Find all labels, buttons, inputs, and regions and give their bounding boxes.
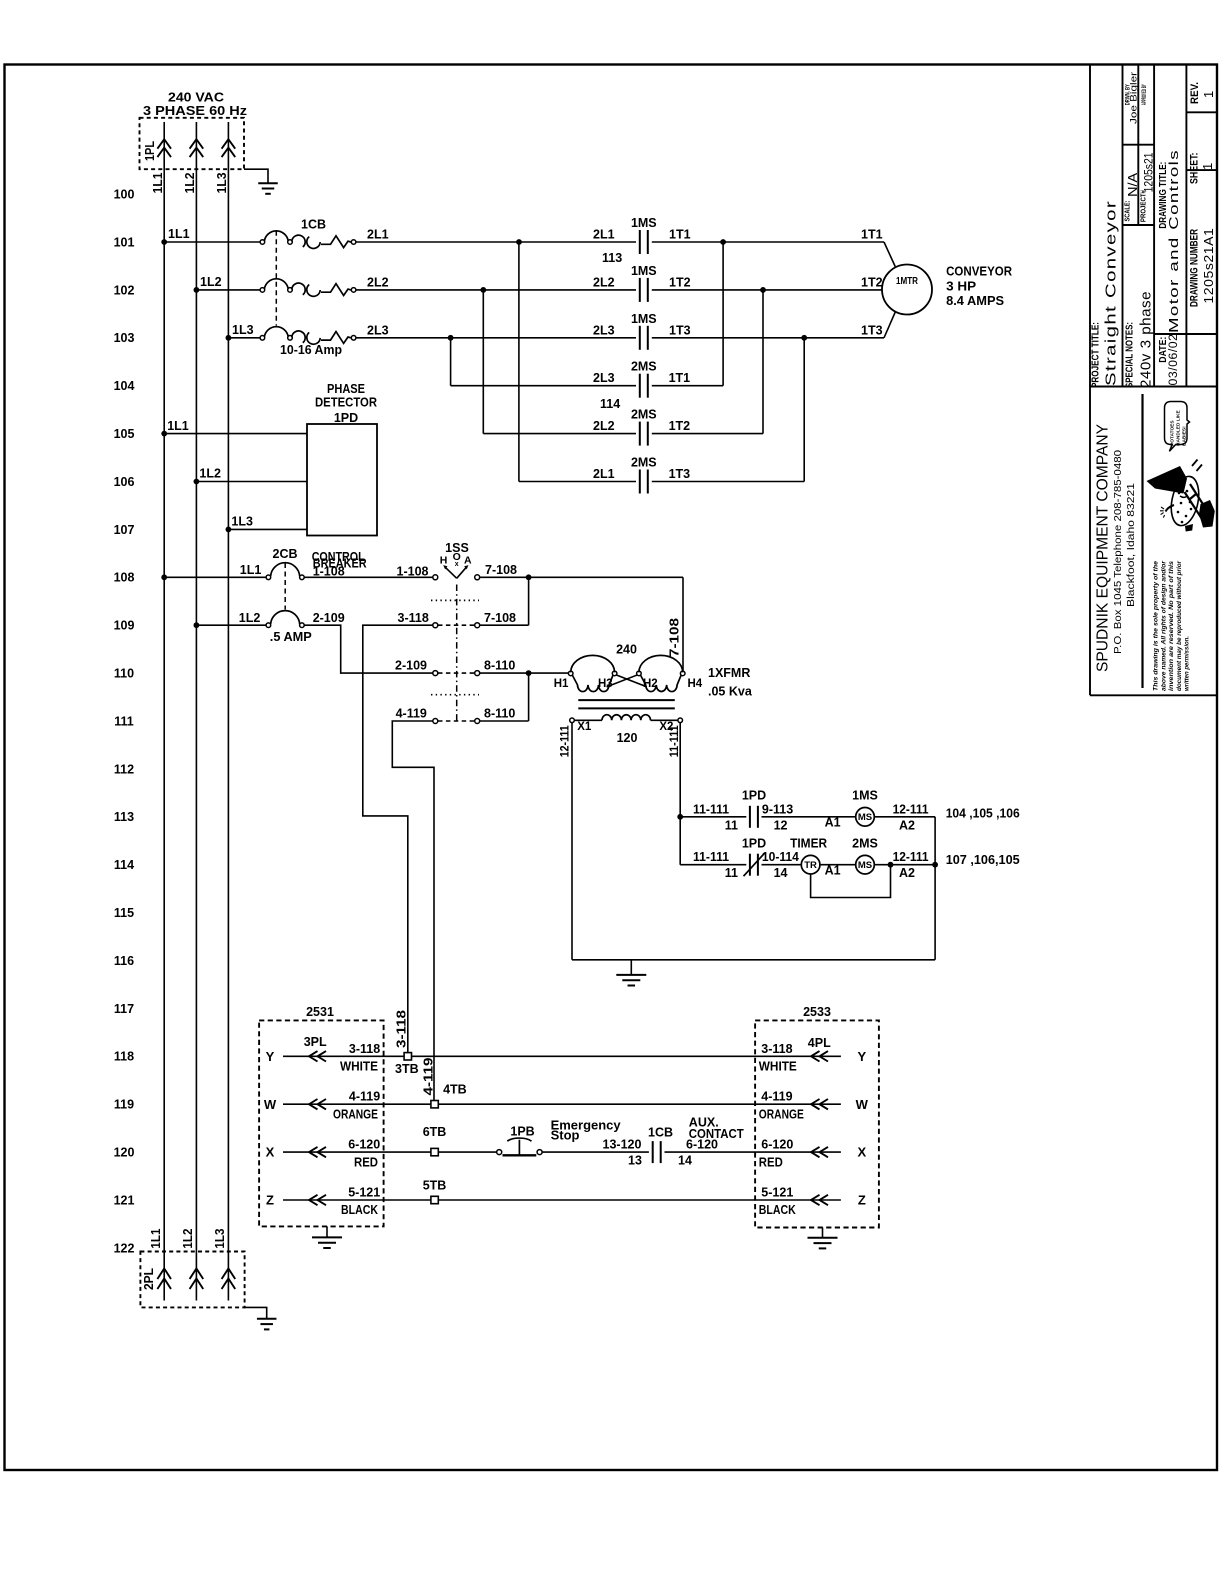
svg-text:1L1: 1L1 [151, 172, 165, 193]
svg-text:3-118: 3-118 [398, 611, 429, 625]
svg-text:4-119: 4-119 [422, 1057, 436, 1095]
svg-text:1T2: 1T2 [669, 419, 691, 433]
svg-text:106: 106 [114, 475, 135, 489]
svg-text:12-111: 12-111 [893, 802, 929, 816]
svg-text:Straight Conveyor: Straight Conveyor [1103, 200, 1120, 386]
svg-text:X: X [266, 1145, 275, 1160]
svg-text:104: 104 [114, 379, 135, 393]
svg-text:6-120: 6-120 [761, 1138, 793, 1152]
svg-text:119: 119 [114, 1098, 134, 1112]
svg-text:1PL: 1PL [143, 141, 157, 161]
svg-text:100: 100 [114, 188, 135, 202]
svg-text:2MS: 2MS [631, 456, 657, 470]
svg-text:6-120: 6-120 [348, 1138, 380, 1152]
svg-text:SPECIAL NOTES:: SPECIAL NOTES: [1124, 322, 1135, 388]
svg-text:9-113: 9-113 [762, 802, 793, 816]
svg-text:BLACK: BLACK [341, 1203, 378, 1217]
svg-text:1T2: 1T2 [669, 275, 691, 289]
svg-text:REV.: REV. [1189, 82, 1201, 104]
svg-text:1T1: 1T1 [669, 371, 691, 385]
svg-text:H2: H2 [643, 678, 658, 690]
svg-text:121: 121 [114, 1193, 135, 1207]
svg-text:7-108: 7-108 [484, 611, 516, 625]
svg-text:ORANGE: ORANGE [333, 1107, 378, 1121]
svg-text:03/06/02: 03/06/02 [1168, 334, 1180, 386]
svg-text:117: 117 [114, 1002, 134, 1016]
svg-text:WHITE: WHITE [759, 1060, 797, 1074]
svg-text:A2: A2 [899, 818, 915, 832]
svg-text:1-108: 1-108 [313, 564, 345, 578]
svg-text:1L2: 1L2 [239, 611, 261, 625]
svg-text:H4: H4 [688, 678, 703, 690]
svg-text:A: A [464, 554, 472, 566]
svg-text:1L2: 1L2 [181, 1229, 195, 1249]
svg-text:5TB: 5TB [423, 1178, 447, 1192]
svg-text:APPROVED BY: APPROVED BY [1141, 84, 1148, 105]
svg-text:3PL: 3PL [304, 1035, 327, 1049]
svg-text:.05 Kva: .05 Kva [708, 685, 753, 699]
svg-text:1CB: 1CB [648, 1126, 673, 1140]
svg-text:115: 115 [114, 906, 134, 920]
svg-text:102: 102 [114, 283, 135, 297]
svg-text:2-109: 2-109 [395, 659, 427, 673]
svg-text:RED: RED [354, 1155, 378, 1169]
svg-text:1T1: 1T1 [669, 228, 691, 242]
svg-text:107 ,106,105: 107 ,106,105 [946, 852, 1020, 867]
svg-text:114: 114 [114, 858, 134, 872]
svg-text:Z: Z [266, 1193, 274, 1208]
svg-text:112: 112 [114, 762, 134, 776]
svg-text:Y: Y [266, 1049, 275, 1064]
svg-text:W: W [264, 1097, 277, 1112]
svg-text:12-111: 12-111 [893, 850, 929, 864]
svg-text:4-119: 4-119 [396, 707, 427, 721]
svg-text:105: 105 [114, 427, 135, 441]
svg-text:2MS: 2MS [631, 408, 657, 422]
svg-text:10-114: 10-114 [762, 850, 799, 864]
svg-text:X: X [857, 1145, 866, 1160]
svg-text:SCALE:: SCALE: [1123, 201, 1132, 222]
svg-text:2531: 2531 [306, 1005, 334, 1019]
svg-text:P.O. Box 1045 Telephone 208-7: P.O. Box 1045 Telephone 208-785-0480 [1112, 450, 1124, 654]
svg-text:1XFMR: 1XFMR [708, 666, 750, 680]
svg-text:113: 113 [602, 251, 622, 265]
svg-text:118: 118 [114, 1050, 134, 1064]
svg-text:Y: Y [857, 1049, 866, 1064]
svg-text:1PD: 1PD [742, 788, 766, 802]
svg-text:2L1: 2L1 [593, 228, 615, 242]
svg-text:x: x [455, 561, 459, 568]
svg-text:H1: H1 [554, 678, 569, 690]
svg-text:RED: RED [759, 1155, 783, 1169]
svg-text:120: 120 [617, 731, 638, 745]
svg-text:Motor and Controls: Motor and Controls [1166, 149, 1181, 333]
svg-text:108: 108 [114, 571, 135, 585]
svg-text:BLACK: BLACK [759, 1203, 796, 1217]
svg-text:3 HP: 3 HP [946, 279, 976, 293]
svg-text:116: 116 [114, 954, 134, 968]
svg-text:POTATOES: POTATOES [1170, 420, 1176, 446]
svg-text:BABIES!: BABIES! [1182, 426, 1188, 446]
svg-text:4-119: 4-119 [349, 1090, 380, 1104]
svg-text:PROJECT TITLE:: PROJECT TITLE: [1090, 322, 1101, 388]
svg-text:1-108: 1-108 [397, 564, 429, 578]
svg-text:14: 14 [678, 1154, 692, 1168]
svg-text:103: 103 [114, 331, 135, 345]
svg-text:Blackfoot, Idaho 83221: Blackfoot, Idaho 83221 [1125, 483, 1137, 607]
svg-text:3-118: 3-118 [349, 1042, 380, 1056]
svg-text:8-110: 8-110 [484, 659, 515, 673]
svg-text:2MS: 2MS [852, 836, 878, 850]
svg-text:2-109: 2-109 [313, 611, 345, 625]
svg-text:11-111: 11-111 [693, 850, 729, 864]
svg-text:1MS: 1MS [852, 788, 878, 802]
svg-text:1L3: 1L3 [215, 172, 229, 193]
svg-text:H: H [440, 554, 448, 566]
svg-text:2533: 2533 [803, 1005, 831, 1019]
svg-text:10-16 Amp: 10-16 Amp [280, 343, 342, 357]
svg-text:7-108: 7-108 [668, 618, 682, 657]
svg-text:1: 1 [1200, 163, 1215, 170]
svg-text:4-119: 4-119 [761, 1090, 792, 1104]
svg-text:CONVEYOR: CONVEYOR [946, 265, 1012, 279]
svg-text:1T3: 1T3 [669, 323, 691, 337]
svg-text:1L3: 1L3 [232, 323, 254, 337]
svg-text:4PL: 4PL [808, 1036, 831, 1050]
svg-text:1MS: 1MS [631, 264, 657, 278]
svg-text:2L2: 2L2 [593, 275, 615, 289]
svg-text:240v 3 phase: 240v 3 phase [1138, 291, 1155, 388]
svg-text:2L2: 2L2 [593, 419, 615, 433]
svg-text:ORANGE: ORANGE [759, 1107, 804, 1121]
svg-text:2CB: 2CB [273, 547, 298, 561]
svg-text:104 ,105 ,106: 104 ,105 ,106 [946, 805, 1020, 820]
svg-text:12-111: 12-111 [559, 725, 571, 758]
svg-text:3-118: 3-118 [394, 1010, 408, 1048]
svg-text:101: 101 [114, 235, 135, 249]
svg-text:1L2: 1L2 [200, 275, 222, 289]
svg-text:14: 14 [774, 866, 788, 880]
svg-text:2L2: 2L2 [367, 275, 389, 289]
svg-text:1T3: 1T3 [861, 323, 883, 337]
svg-text:1205s21A1: 1205s21A1 [1201, 228, 1216, 304]
svg-text:11: 11 [725, 866, 738, 880]
svg-text:1T3: 1T3 [669, 467, 691, 481]
svg-text:8.4 AMPS: 8.4 AMPS [946, 294, 1004, 308]
svg-text:2MS: 2MS [631, 360, 657, 374]
svg-text:W: W [856, 1097, 869, 1112]
svg-text:1L1: 1L1 [240, 563, 262, 577]
svg-text:8-110: 8-110 [484, 707, 515, 721]
svg-text:1L1: 1L1 [168, 227, 190, 241]
svg-text:DETECTOR: DETECTOR [315, 395, 377, 409]
svg-text:1L3: 1L3 [213, 1229, 227, 1249]
svg-text:HANDLED LIKE: HANDLED LIKE [1176, 409, 1182, 446]
svg-text:13: 13 [628, 1154, 642, 1168]
svg-text:A2: A2 [899, 866, 915, 880]
svg-text:13-120: 13-120 [603, 1138, 642, 1152]
svg-text:1MTR: 1MTR [896, 276, 919, 287]
svg-text:2L3: 2L3 [593, 371, 615, 385]
svg-text:6TB: 6TB [423, 1125, 447, 1139]
svg-text:A1: A1 [825, 816, 841, 830]
svg-text:This drawing is the sole prope: This drawing is the sole property of the [1153, 561, 1160, 691]
svg-text:5-121: 5-121 [348, 1186, 380, 1200]
svg-text:122: 122 [114, 1241, 135, 1255]
svg-text:SPUDNIK EQUIPMENT COMPANY: SPUDNIK EQUIPMENT COMPANY [1095, 424, 1112, 672]
svg-text:written permission.: written permission. [1184, 636, 1191, 691]
svg-text:120: 120 [114, 1146, 135, 1160]
svg-text:A1: A1 [825, 863, 841, 877]
svg-text:1PD: 1PD [334, 411, 358, 425]
svg-text:240: 240 [616, 643, 637, 657]
svg-text:113: 113 [114, 810, 134, 824]
svg-text:1T1: 1T1 [861, 228, 883, 242]
svg-text:PHASE: PHASE [327, 382, 365, 396]
svg-text:114: 114 [600, 397, 620, 411]
svg-text:111: 111 [114, 714, 134, 728]
svg-text:7-108: 7-108 [485, 563, 517, 577]
svg-text:1L2: 1L2 [183, 172, 197, 193]
svg-text:11: 11 [725, 818, 738, 832]
svg-text:12: 12 [774, 818, 788, 832]
svg-text:DRAWING NUMBER: DRAWING NUMBER [1189, 229, 1201, 307]
svg-text:6-120: 6-120 [686, 1138, 718, 1152]
svg-text:TR: TR [804, 860, 817, 871]
svg-text:2PL: 2PL [142, 1268, 156, 1290]
svg-text:3TB: 3TB [395, 1062, 419, 1076]
svg-text:1L1: 1L1 [149, 1229, 163, 1249]
svg-text:109: 109 [114, 619, 135, 633]
svg-text:MS: MS [858, 860, 872, 871]
svg-text:1: 1 [1201, 91, 1216, 98]
svg-text:2L3: 2L3 [593, 323, 615, 337]
svg-text:5-121: 5-121 [761, 1186, 793, 1200]
svg-text:110: 110 [114, 667, 134, 681]
svg-text:1MS: 1MS [631, 312, 657, 326]
svg-text:3-118: 3-118 [761, 1042, 792, 1056]
svg-text:X1: X1 [577, 721, 592, 733]
svg-text:.5 AMP: .5 AMP [270, 630, 312, 644]
svg-text:invention are reserved. No pa: invention are reserved. No part of this [1168, 561, 1175, 691]
svg-text:H3: H3 [598, 678, 613, 690]
svg-text:Z: Z [858, 1193, 866, 1208]
svg-text:4TB: 4TB [443, 1082, 467, 1096]
svg-text:WHITE: WHITE [340, 1060, 378, 1074]
svg-text:1205s21: 1205s21 [1142, 152, 1156, 192]
svg-text:11-111: 11-111 [693, 802, 729, 816]
svg-text:1L2: 1L2 [199, 467, 221, 481]
svg-text:1T2: 1T2 [861, 275, 883, 289]
svg-text:2L1: 2L1 [593, 467, 615, 481]
svg-text:SHEET:: SHEET: [1189, 153, 1201, 185]
svg-text:TIMER: TIMER [790, 836, 827, 850]
svg-text:1L1: 1L1 [167, 419, 189, 433]
svg-text:1MS: 1MS [631, 216, 657, 230]
svg-text:2L3: 2L3 [367, 323, 389, 337]
svg-text:Joe Bigler: Joe Bigler [1129, 72, 1140, 124]
svg-text:1CB: 1CB [301, 217, 326, 231]
svg-text:1L3: 1L3 [231, 515, 253, 529]
svg-text:above named. All rights of de: above named. All rights of design and/or [1160, 561, 1167, 691]
svg-text:2L1: 2L1 [367, 228, 389, 242]
svg-text:document may be reproduced wit: document may be reproduced without prior [1176, 561, 1183, 691]
svg-text:1PD: 1PD [742, 836, 766, 850]
svg-text:Stop: Stop [551, 1128, 580, 1143]
svg-text:107: 107 [114, 523, 135, 537]
svg-text:1PB: 1PB [510, 1125, 534, 1139]
svg-text:3 PHASE 60 Hz: 3 PHASE 60 Hz [143, 103, 248, 118]
svg-text:PROJECT#: PROJECT# [1138, 189, 1147, 222]
svg-text:MS: MS [858, 812, 872, 823]
